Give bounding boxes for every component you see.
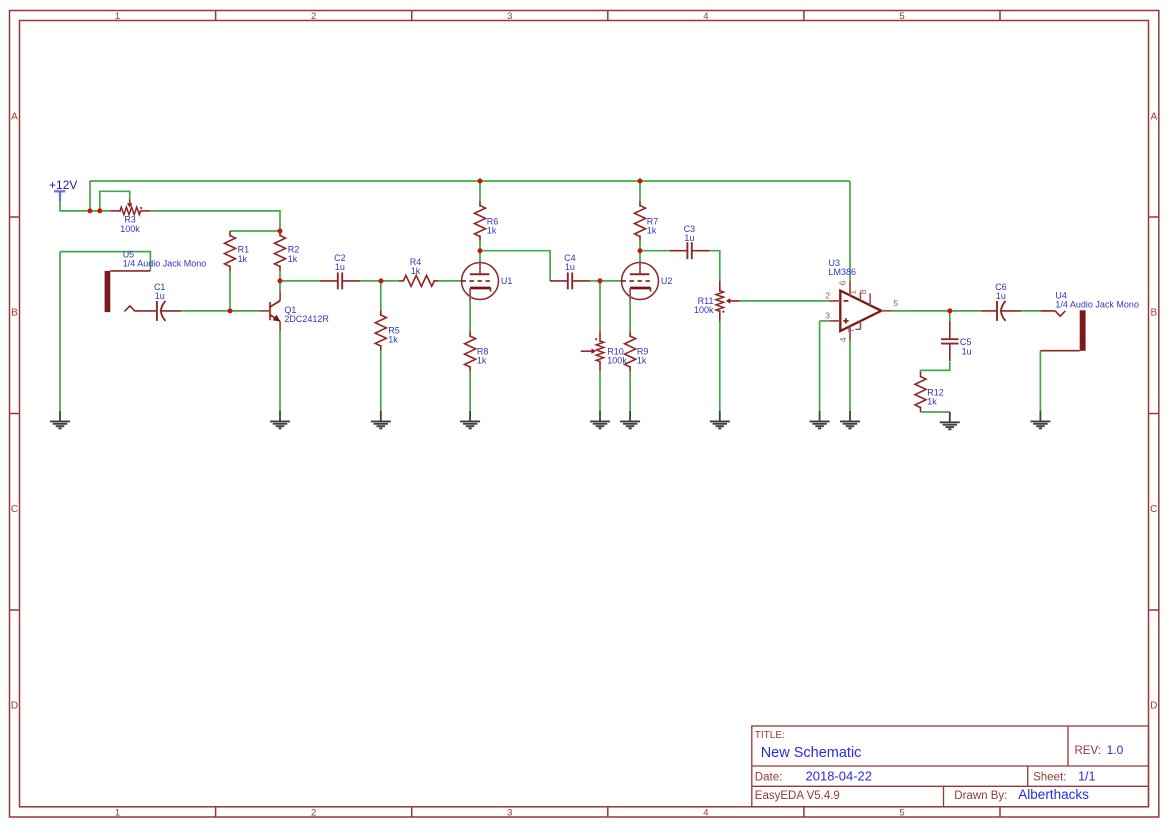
svg-text:100k: 100k — [120, 224, 140, 234]
svg-text:1k: 1k — [487, 226, 497, 236]
svg-text:100k: 100k — [694, 305, 714, 315]
svg-text:7: 7 — [846, 328, 856, 333]
svg-text:1k: 1k — [411, 266, 421, 276]
svg-text:C: C — [1150, 504, 1157, 515]
svg-text:5: 5 — [899, 11, 904, 22]
svg-text:4: 4 — [703, 807, 708, 818]
svg-text:1k: 1k — [388, 334, 398, 344]
svg-text:1/4 Audio Jack Mono: 1/4 Audio Jack Mono — [1055, 299, 1139, 309]
svg-text:EasyEDA V5.4.9: EasyEDA V5.4.9 — [755, 790, 840, 802]
svg-text:2DC2412R: 2DC2412R — [284, 314, 329, 324]
svg-text:D: D — [1150, 700, 1157, 711]
svg-text:TITLE:: TITLE: — [755, 730, 785, 741]
svg-text:4: 4 — [703, 11, 708, 22]
svg-text:1/4 Audio Jack Mono: 1/4 Audio Jack Mono — [123, 258, 207, 268]
svg-text:B: B — [1150, 308, 1157, 319]
svg-text:1u: 1u — [996, 291, 1006, 301]
svg-text:REV:: REV: — [1075, 745, 1101, 757]
svg-text:1: 1 — [115, 807, 120, 818]
svg-text:D: D — [11, 700, 18, 711]
svg-text:+12V: +12V — [49, 178, 77, 192]
svg-text:100k: 100k — [607, 356, 627, 366]
svg-text:1k: 1k — [238, 254, 248, 264]
svg-text:Drawn By:: Drawn By: — [954, 790, 1007, 802]
svg-text:2: 2 — [311, 807, 316, 818]
svg-text:1u: 1u — [155, 291, 165, 301]
svg-text:1: 1 — [848, 290, 858, 295]
svg-text:1u: 1u — [335, 262, 345, 272]
svg-text:A: A — [1150, 111, 1157, 122]
svg-text:1k: 1k — [637, 356, 647, 366]
svg-text:LM386: LM386 — [829, 267, 857, 277]
svg-text:3: 3 — [507, 11, 512, 22]
svg-text:U1: U1 — [501, 276, 513, 286]
svg-text:5: 5 — [899, 807, 904, 818]
svg-text:1.0: 1.0 — [1107, 743, 1124, 757]
svg-text:1: 1 — [115, 11, 120, 22]
svg-text:C: C — [11, 504, 18, 515]
svg-text:1k: 1k — [288, 254, 298, 264]
svg-text:4: 4 — [838, 337, 848, 342]
svg-text:New Schematic: New Schematic — [761, 745, 862, 761]
svg-text:2: 2 — [311, 11, 316, 22]
svg-text:A: A — [11, 111, 18, 122]
svg-text:2018-04-22: 2018-04-22 — [806, 768, 873, 783]
svg-text:3: 3 — [825, 310, 830, 320]
svg-text:Date:: Date: — [755, 771, 783, 783]
svg-text:6: 6 — [838, 280, 848, 285]
svg-text:1k: 1k — [647, 226, 657, 236]
svg-text:Sheet:: Sheet: — [1033, 771, 1066, 783]
svg-text:1/1: 1/1 — [1078, 769, 1095, 783]
svg-text:8: 8 — [858, 289, 868, 294]
svg-text:B: B — [11, 308, 18, 319]
svg-text:2: 2 — [825, 290, 830, 300]
svg-text:3: 3 — [507, 807, 512, 818]
svg-text:1u: 1u — [684, 233, 694, 243]
svg-text:1k: 1k — [927, 396, 937, 406]
svg-text:1u: 1u — [565, 262, 575, 272]
svg-text:U2: U2 — [661, 276, 673, 286]
svg-text:Alberthacks: Alberthacks — [1018, 787, 1089, 802]
svg-text:5: 5 — [893, 298, 898, 308]
svg-text:1k: 1k — [477, 356, 487, 366]
svg-text:1u: 1u — [962, 346, 972, 356]
